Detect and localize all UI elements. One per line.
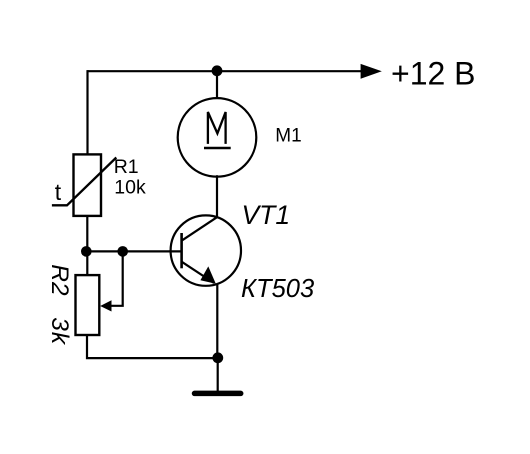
wire motor to collector xyxy=(216,175,218,218)
wire R2 bottom to ground run xyxy=(87,335,218,358)
wire R1 to R2 xyxy=(86,216,88,275)
svg-text:R2: R2 xyxy=(46,264,73,296)
collector line xyxy=(182,217,217,241)
svg-text:t: t xyxy=(55,179,62,205)
motor M1 xyxy=(178,98,257,177)
wiper wire xyxy=(110,251,123,305)
wire junction to ground xyxy=(217,358,219,391)
wire base horizontal xyxy=(86,250,181,252)
svg-text:10k: 10k xyxy=(114,176,146,198)
emitter line xyxy=(182,262,214,283)
svg-text:M1: M1 xyxy=(275,125,301,146)
ground xyxy=(195,391,241,397)
base bar xyxy=(180,233,183,268)
node wiper junction xyxy=(117,246,128,257)
wire rail to motor xyxy=(216,71,218,100)
svg-text:КТ503: КТ503 xyxy=(241,275,314,303)
svg-text:+12 В: +12 В xyxy=(391,56,476,92)
arrowhead +12V xyxy=(361,64,382,79)
potentiometer R2 body xyxy=(76,275,100,335)
node supply junction xyxy=(212,65,223,76)
wire left vertical rail to R1 xyxy=(86,70,88,154)
svg-text:R1: R1 xyxy=(114,156,139,178)
thermistor diagonal xyxy=(52,158,116,206)
transistor VT1 xyxy=(171,215,241,285)
resistor R1 thermistor body xyxy=(74,154,102,216)
svg-text:VT1: VT1 xyxy=(242,200,291,230)
wire emitter down xyxy=(216,284,218,358)
node divider junction xyxy=(81,246,92,257)
wire +12V rail xyxy=(88,70,363,72)
emitter arrow xyxy=(200,266,215,283)
wiper arrowhead xyxy=(100,300,111,311)
node emitter junction xyxy=(212,352,223,363)
svg-text:3k: 3k xyxy=(46,317,73,346)
